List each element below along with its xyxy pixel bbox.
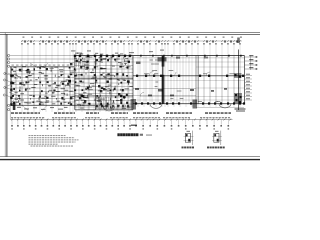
main interior wall verticals — [74, 56, 76, 110]
left row annotation lines — [10, 55, 74, 57]
right text specks — [144, 60, 234, 103]
stair hatch — [77, 58, 111, 109]
door arcs right section — [140, 72, 210, 97]
top grid dimension value specks — [24, 40, 238, 42]
mid bottom terrace line — [95, 108, 130, 110]
building outline: top edge — [74, 55, 245, 57]
left lower axis bubbles — [4, 72, 6, 74]
left wing leader lines — [8, 63, 49, 103]
right top edge column dots — [140, 55, 242, 57]
below-wing leader text — [17, 107, 68, 110]
top right corner mark — [237, 38, 240, 44]
right annotation text — [235, 108, 246, 111]
column detail A label — [182, 147, 195, 149]
bottom-left corner column — [13, 103, 16, 110]
building outline: mid bottom — [75, 109, 133, 111]
right lower terrace line — [196, 107, 244, 109]
vertical column grid lines — [22, 45, 240, 112]
right side lower dim ticks — [245, 76, 252, 101]
right wall cluster lower — [234, 93, 242, 103]
right mid-room marks — [135, 88, 227, 96]
labels above mid top edge — [75, 53, 123, 55]
middle section columns — [69, 55, 132, 106]
notes text block — [29, 135, 79, 146]
sheet bottom border double line — [0, 156, 260, 158]
left wing columns — [11, 67, 69, 105]
below-wing leaders — [22, 106, 47, 111]
building outline: right edge — [244, 56, 246, 104]
drawing title text — [117, 133, 152, 136]
top grid bubbles and dimension ticks — [21, 40, 241, 45]
column detail B label — [207, 147, 225, 149]
middle dark beam bands — [75, 77, 134, 79]
bottom dimension value text row — [11, 112, 231, 114]
bay window arc right — [219, 104, 231, 108]
middle section beams — [75, 56, 134, 110]
column detail A — [184, 131, 194, 145]
bottom dim small numbers above line — [11, 117, 230, 118]
top grid axis number specks — [23, 37, 242, 38]
left row grid bubbles — [8, 54, 10, 56]
building outline: right bottom — [133, 103, 245, 105]
bay window arc mid-left — [104, 107, 115, 112]
building outline: left wing — [10, 66, 74, 68]
bottom axis numbers below bubbles — [11, 128, 229, 129]
column detail B — [212, 131, 222, 145]
stair cluster right of mid — [131, 99, 137, 110]
middle text specks — [74, 56, 133, 109]
right mid beam y88 — [133, 88, 196, 90]
mid bottom bay cluster — [96, 105, 129, 108]
bottom-left grid bubbles — [8, 104, 10, 106]
right section partition verticals — [140, 56, 240, 104]
JL label left of bubbles row — [131, 125, 137, 127]
right beam band blobs — [136, 75, 244, 77]
right section beams — [133, 62, 244, 100]
bottom dimension ticks — [11, 119, 231, 121]
bottom grid bubble dots — [11, 125, 229, 127]
left dim edge vertical — [9, 105, 11, 119]
bay window arc mid-right — [150, 104, 162, 109]
left lower axis leaders — [6, 74, 11, 98]
right main beam band — [133, 75, 245, 77]
right side dim connector — [250, 56, 252, 71]
right side upper dim lines — [245, 57, 257, 69]
sheet top border double line — [0, 32, 260, 34]
labels above building — [71, 50, 164, 54]
sheet left border double line — [4, 33, 6, 157]
left wing beams — [11, 67, 74, 106]
left wing text specks — [11, 65, 74, 105]
right wall cluster upper — [234, 73, 242, 78]
bottom dimension line — [10, 119, 233, 121]
left edge columns — [10, 75, 12, 106]
right top row blobs — [158, 57, 167, 61]
bottom grid stubs — [12, 120, 228, 125]
dark pair right-mid bottom — [193, 100, 198, 109]
middle dark clusters — [68, 63, 125, 102]
top grid dimension line — [21, 40, 242, 42]
right bottom edge columns — [135, 102, 245, 104]
right wall x197 — [197, 56, 199, 104]
elevator shaft dark band — [162, 56, 165, 67]
